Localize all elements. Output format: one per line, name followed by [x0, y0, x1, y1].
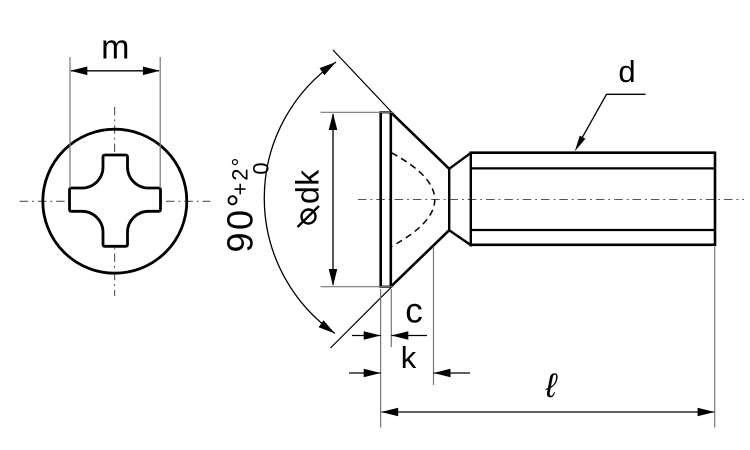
thread major diameter top line	[470, 151, 716, 154]
head top edge	[379, 111, 392, 113]
svg-text:ℓ: ℓ	[545, 367, 559, 405]
c arrowhead (points left)	[391, 331, 408, 340]
thread chamfer upper	[449, 153, 471, 169]
svg-text:c: c	[405, 292, 423, 331]
phi dk extension line top	[321, 111, 394, 113]
c dimension line right tail	[391, 335, 427, 337]
center line axis (side view)	[358, 199, 744, 201]
thread chamfer lower	[449, 230, 471, 245]
c arrowhead (points right)	[364, 331, 381, 340]
center line horizontal (front view)	[20, 200, 211, 202]
shared extension line (head face / l dimension, long left vertical)	[380, 289, 382, 428]
head outline circle	[43, 129, 187, 273]
center line vertical (front view)	[114, 107, 116, 296]
thread minor diameter bottom line	[471, 229, 716, 231]
k arrowhead (points right)	[364, 369, 381, 378]
diameter symbol slash	[298, 206, 320, 227]
cone flank upper	[391, 112, 449, 169]
m arrowhead right	[143, 67, 160, 76]
d leader line	[578, 94, 646, 146]
thread start vertical	[470, 152, 472, 247]
m extension line right	[159, 57, 161, 188]
svg-text:d: d	[618, 54, 635, 89]
k extension line right	[433, 247, 435, 386]
phillips recess cross	[70, 155, 161, 246]
m extension line left	[69, 57, 71, 188]
l dimension line	[382, 411, 715, 413]
l arrowhead right (points right)	[698, 408, 715, 417]
label 90 deg +2/0 (rotated)	[220, 156, 274, 253]
neck vertical at cone end	[448, 168, 450, 231]
screw head flat face (right vertical edge)	[389, 112, 392, 287]
m arrowhead left	[70, 67, 87, 76]
angle arc arrowhead lower	[319, 320, 335, 333]
thread major diameter bottom line	[470, 244, 716, 247]
thread minor diameter top line	[471, 167, 716, 169]
thread end vertical	[714, 152, 717, 247]
cone flank lower	[391, 230, 449, 287]
svg-text:k: k	[401, 340, 417, 375]
hidden recess depth curve (dashed)	[392, 153, 435, 247]
phi dk extension line bottom	[321, 286, 394, 288]
k dimension line right tail	[434, 372, 471, 374]
svg-text:m: m	[101, 29, 129, 67]
angle dimension arc (90 deg)	[264, 62, 336, 334]
construction line lower (countersink angle, extension of cone flank)	[331, 287, 393, 349]
c dimension line left tail	[352, 335, 381, 337]
label phi dk (rotated): diameter symbol	[302, 210, 316, 224]
label dk (rotated)	[290, 169, 326, 204]
phi dk arrowhead down	[329, 269, 338, 286]
k dimension line left tail	[349, 372, 381, 374]
construction line upper (countersink angle, extension of cone flank)	[333, 50, 392, 113]
m dimension line	[71, 70, 159, 72]
l extension line right	[714, 247, 716, 428]
phi dk dimension line	[332, 114, 334, 285]
screw head flat face (left vertical edge)	[379, 112, 382, 287]
angle arc arrowhead upper	[320, 62, 336, 75]
d leader arrowhead	[575, 136, 586, 152]
svg-text:dk: dk	[290, 169, 326, 204]
phi dk arrowhead up	[329, 113, 338, 130]
k arrowhead (points left)	[434, 369, 451, 378]
head bottom edge	[379, 286, 392, 288]
c extension line right	[390, 289, 392, 347]
l arrowhead left (points left)	[381, 408, 398, 417]
